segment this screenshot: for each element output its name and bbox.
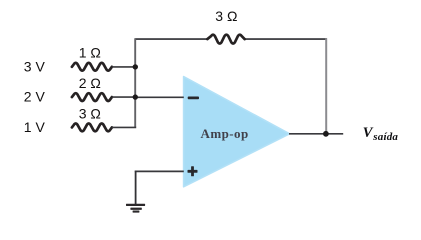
svg-text:3 V: 3 V [24,58,46,74]
resistor R3 3ohm [72,105,112,131]
ground [126,204,145,213]
node: output junction [323,131,329,137]
wire: output from op-amp tip [289,133,343,135]
svg-text:3 Ω: 3 Ω [215,8,237,24]
svg-text:2 Ω: 2 Ω [79,75,101,91]
svg-text:V: V [363,125,374,141]
node label Vsaida [363,125,399,143]
node: junction bus/R2 [133,94,138,99]
resistor Rf 3ohm (feedback) [207,8,244,44]
svg-text:1 Ω: 1 Ω [79,45,101,61]
wire: left vertical bus [134,38,136,127]
wire: top feedback right segment [244,38,327,40]
svg-text:1 V: 1 V [24,119,46,135]
op-amp U1 (Amp-op triangle) [184,77,290,187]
svg-text:saída: saída [372,131,398,143]
wire: ground riser [135,171,137,204]
wire: non-inverting input [135,170,184,172]
svg-text:2 V: 2 V [24,89,46,105]
wire: R1 to bus [112,66,135,68]
node: junction bus/R1 [133,64,138,69]
wire: top feedback left segment [135,38,207,40]
resistor R1 1ohm [72,45,112,71]
resistor R2 2ohm [72,75,112,101]
wire: R3 to bus corner [112,126,136,128]
wire: R2 to bus [112,96,135,98]
minus input symbol [188,97,199,100]
plus input symbol [188,166,198,176]
wire: right vertical feedback drop [325,38,327,134]
svg-text:Amp-op: Amp-op [200,126,248,141]
wire: inverting input [135,96,184,98]
svg-text:3 Ω: 3 Ω [79,105,101,121]
